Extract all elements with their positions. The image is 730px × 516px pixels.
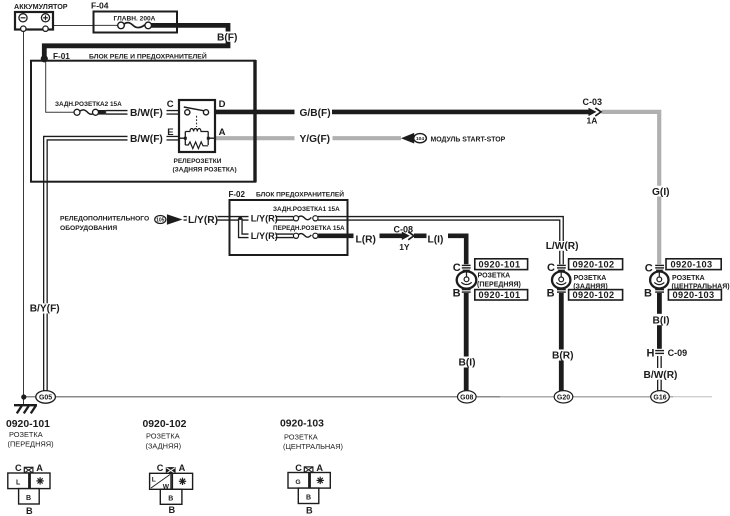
svg-text:РОЗЕТКА: РОЗЕТКА	[9, 430, 43, 439]
wire Y/G(F) gray from relay A	[215, 136, 295, 140]
pinout 0920-103	[280, 419, 343, 516]
ground G08	[458, 391, 477, 403]
svg-text:A: A	[219, 127, 226, 138]
svg-text:B/W(F): B/W(F)	[130, 108, 163, 119]
svg-text:C: C	[167, 99, 174, 110]
connector C-09	[655, 351, 664, 354]
svg-text:B(I): B(I)	[653, 315, 670, 326]
svg-text:0920-103: 0920-103	[671, 260, 713, 270]
svg-text:G: G	[295, 479, 300, 486]
svg-text:(ЗАДНЯЯ): (ЗАДНЯЯ)	[146, 441, 182, 450]
svg-text:F-04: F-04	[91, 1, 109, 11]
svg-text:104: 104	[416, 136, 424, 142]
wire G(I) gray from C-03 down to socket 0920-103	[602, 112, 660, 186]
ground G05	[21, 394, 26, 399]
svg-text:A: A	[36, 463, 43, 473]
wire B/W(F) row E hollow + B/Y(F) vertical to ground	[45, 138, 179, 391]
chassis ground symbol	[14, 405, 37, 413]
svg-text:G05: G05	[39, 395, 52, 402]
svg-text:0920-102: 0920-102	[143, 419, 187, 430]
junction dot L/Y(R)	[239, 217, 242, 220]
svg-text:C: C	[295, 463, 302, 473]
svg-text:(ЦЕНТРАЛЬНАЯ): (ЦЕНТРАЛЬНАЯ)	[283, 442, 343, 451]
svg-text:L(R): L(R)	[356, 235, 376, 246]
svg-text:0920-102: 0920-102	[573, 290, 615, 300]
wire L/W(R) hollow from F-02 fuse1 to socket 0920-102	[318, 218, 562, 264]
svg-text:B/Y(F): B/Y(F)	[30, 304, 60, 315]
svg-text:G/B(F): G/B(F)	[300, 108, 331, 119]
svg-text:B: B	[453, 287, 461, 299]
pinout 0920-102	[143, 419, 193, 515]
svg-text:0920-101: 0920-101	[6, 419, 50, 430]
svg-text:L/Y(R): L/Y(R)	[251, 231, 278, 241]
svg-text:ЗАДН.РОЗЕТКА2 15А: ЗАДН.РОЗЕТКА2 15А	[55, 101, 122, 108]
relay РЕЛЕРОЗЕТКИ	[179, 100, 215, 152]
svg-text:БЛОК ПРЕДОХРАНИТЕЛЕЙ: БЛОК ПРЕДОХРАНИТЕЛЕЙ	[256, 190, 344, 199]
terminal glyph	[24, 467, 33, 473]
svg-text:(ПЕРЕДНЯЯ): (ПЕРЕДНЯЯ)	[477, 281, 521, 288]
svg-text:B(I): B(I)	[459, 358, 476, 369]
svg-text:БЛОК РЕЛЕ И ПРЕДОХРАНИТЕЛЕЙ: БЛОК РЕЛЕ И ПРЕДОХРАНИТЕЛЕЙ	[89, 52, 207, 61]
svg-text:C: C	[157, 463, 164, 473]
svg-text:(ЗАДНЯЯ РОЗЕТКА): (ЗАДНЯЯ РОЗЕТКА)	[173, 167, 237, 174]
svg-text:B/W(F): B/W(F)	[130, 134, 163, 145]
relay node dots	[184, 137, 187, 140]
svg-text:L/W(R): L/W(R)	[546, 241, 579, 252]
relay coil	[179, 132, 215, 146]
svg-text:0920-101: 0920-101	[479, 260, 521, 270]
connector C-08	[402, 232, 414, 240]
wire B(R) socket102 to G20	[559, 293, 564, 350]
svg-text:0920-103: 0920-103	[280, 419, 324, 430]
svg-text:C: C	[645, 263, 653, 275]
wire B/W(R) hollow from C-09 to G16	[657, 356, 662, 391]
svg-text:C: C	[453, 262, 461, 274]
wire inside F-01 from B(F) dot to fuse	[46, 59, 74, 112]
relay switch contacts	[184, 107, 208, 111]
ground G20	[554, 391, 573, 403]
svg-text:B: B	[26, 495, 31, 502]
svg-text:B: B	[306, 505, 313, 515]
svg-text:L: L	[16, 480, 21, 487]
svg-text:АККУМУЛЯТОР: АККУМУЛЯТОР	[14, 2, 68, 11]
svg-text:G16: G16	[653, 395, 666, 402]
svg-text:L/Y(R): L/Y(R)	[188, 215, 218, 226]
ground bus line	[24, 396, 500, 398]
pin cells	[8, 473, 29, 489]
svg-text:ПЕРЕДН.РОЗЕТКА 15А: ПЕРЕДН.РОЗЕТКА 15А	[273, 225, 345, 232]
svg-text:B(R): B(R)	[552, 351, 574, 362]
svg-text:РОЗЕТКА: РОЗЕТКА	[672, 275, 705, 282]
svg-text:L/Y(R): L/Y(R)	[251, 214, 278, 224]
wire B(F) thick	[151, 25, 228, 31]
connector C-03	[589, 108, 602, 116]
svg-text:D: D	[219, 99, 226, 110]
svg-text:0920-103: 0920-103	[673, 290, 715, 300]
wire B(I) socket103 to C-09	[657, 293, 662, 314]
wire inside F-04 to fuse	[94, 24, 119, 26]
socket 0920-101 РОЗЕТКА (ПЕРЕДНЯЯ)	[457, 265, 477, 292]
fuse ГЛАВН 200A	[118, 22, 152, 29]
svg-text:РОЗЕТКА: РОЗЕТКА	[284, 432, 318, 441]
svg-text:0920-101: 0920-101	[479, 290, 521, 300]
relay resistor	[185, 142, 208, 149]
svg-text:РЕЛЕРОЗЕТКИ: РЕЛЕРОЗЕТКИ	[174, 158, 222, 165]
svg-text:F-01: F-01	[53, 52, 70, 61]
socket 0920-103 РОЗЕТКА (ЦЕНТРАЛЬНАЯ)	[650, 265, 668, 292]
svg-text:L(I): L(I)	[428, 235, 444, 246]
junction dot B(F) on F-01 edge	[41, 55, 48, 62]
svg-text:РЕЛЕДОПОЛНИТЕЛЬНОГО: РЕЛЕДОПОЛНИТЕЛЬНОГО	[60, 216, 149, 223]
wire B/W(F) row C hollow (fuse to relay C)	[98, 110, 180, 115]
svg-text:C: C	[15, 463, 22, 473]
svg-text:ГЛАВН. 200А: ГЛАВН. 200А	[114, 16, 156, 23]
arrow to МОДУЛЬ START-STOP (104)	[401, 133, 427, 144]
svg-text:C: C	[547, 262, 555, 274]
svg-text:B: B	[26, 506, 33, 516]
svg-text:B(F): B(F)	[217, 32, 237, 43]
svg-text:(ПЕРЕДНЯЯ): (ПЕРЕДНЯЯ)	[8, 440, 54, 449]
svg-text:1А: 1А	[587, 115, 598, 125]
socket 0920-102 РОЗЕТКА (ЗАДНЯЯ)	[552, 265, 570, 292]
svg-text:G(I): G(I)	[652, 187, 670, 198]
svg-text:РОЗЕТКА: РОЗЕТКА	[146, 432, 180, 441]
wire G/B(F) thick from relay D	[215, 110, 295, 115]
svg-text:B: B	[168, 495, 173, 502]
svg-text:0920-102: 0920-102	[573, 260, 615, 270]
battery	[15, 12, 53, 31]
svg-text:A: A	[179, 463, 186, 473]
wire L/Y(R) hollow from arrow 105 into F-02, junction branch	[184, 218, 294, 236]
wire battery to F-04	[50, 25, 94, 27]
relay dashed link	[196, 116, 198, 127]
svg-text:B: B	[644, 287, 652, 299]
wire B(I) socket101 to G08	[464, 293, 469, 357]
svg-text:C-03: C-03	[583, 97, 603, 107]
pinout 0920-101	[6, 419, 54, 516]
svg-text:G08: G08	[460, 395, 473, 402]
wire L(R) / L(I) thick from F-02 fuse2 to socket 0920-101	[318, 234, 353, 239]
svg-text:МОДУЛЬ START-STOP: МОДУЛЬ START-STOP	[431, 136, 506, 143]
ground G16	[651, 391, 670, 403]
battery wire down to ground	[23, 29, 25, 405]
svg-text:L: L	[152, 477, 156, 484]
svg-text:B: B	[547, 287, 555, 299]
svg-text:ОБОРУДОВАНИЯ: ОБОРУДОВАНИЯ	[60, 225, 117, 232]
svg-text:РОЗЕТКА: РОЗЕТКА	[478, 273, 511, 280]
svg-text:B: B	[306, 495, 311, 502]
svg-text:РОЗЕТКА: РОЗЕТКА	[574, 275, 607, 282]
svg-text:A: A	[316, 463, 323, 473]
svg-text:Y/G(F): Y/G(F)	[300, 134, 331, 145]
svg-text:E: E	[167, 127, 173, 138]
svg-text:ЗАДН.РОЗЕТКА1 15А: ЗАДН.РОЗЕТКА1 15А	[273, 206, 340, 213]
svg-text:105: 105	[156, 218, 165, 224]
svg-text:H: H	[647, 348, 655, 360]
svg-text:B/W(R): B/W(R)	[644, 370, 678, 381]
svg-text:1Y: 1Y	[399, 242, 410, 252]
svg-text:B: B	[169, 505, 176, 515]
svg-text:C-09: C-09	[668, 348, 688, 358]
svg-text:G20: G20	[557, 395, 570, 402]
svg-text:C-08: C-08	[394, 225, 414, 235]
svg-text:F-02: F-02	[229, 190, 246, 199]
